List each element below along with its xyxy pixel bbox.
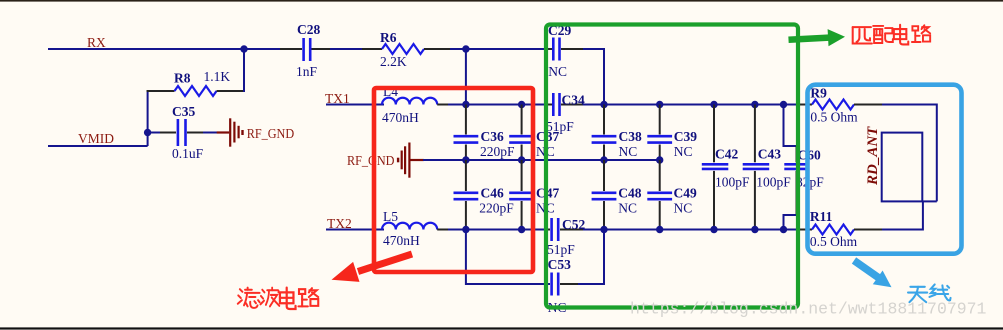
junction TX2/col2: [518, 226, 525, 233]
svg-text:C52: C52: [562, 217, 585, 232]
svg-text:NC: NC: [674, 201, 693, 216]
wire C53 loop right: [578, 230, 604, 285]
junction TX2/col3: [600, 226, 607, 233]
inductor L4: [382, 84, 452, 125]
arrow antenna (cyan): [854, 261, 892, 288]
capacitor C42: [702, 105, 750, 230]
junction TX2/C42: [710, 226, 717, 233]
wire R9 to antenna: [882, 105, 937, 202]
wire vertical col1 RX to TX1: [465, 49, 467, 105]
capacitor C35: [148, 104, 205, 161]
junction mid/col1: [462, 156, 469, 163]
top frame line: [0, 0, 1003, 2]
svg-text:C43: C43: [758, 147, 781, 162]
junction TX1/C42: [710, 101, 717, 108]
capacitor C37: [509, 105, 559, 161]
svg-text:RF_GND: RF_GND: [247, 126, 295, 141]
svg-text:C36: C36: [481, 129, 504, 144]
wire C29 to col3 drop: [583, 49, 604, 105]
antenna U RD_ANT box: [865, 126, 937, 202]
wire R6 to C29: [450, 48, 546, 50]
svg-text:0.5 Ohm: 0.5 Ohm: [810, 110, 858, 125]
junction TX1/col4: [656, 101, 663, 108]
svg-text:C53: C53: [548, 257, 571, 272]
wire RX horizontal: [48, 48, 302, 50]
node VMID label: [78, 131, 114, 146]
wire VMID: [48, 145, 148, 147]
capacitor C36: [454, 105, 516, 161]
svg-text:L5: L5: [383, 209, 398, 224]
svg-text:R6: R6: [380, 30, 397, 45]
svg-text:https://blog.csdn.net/wwt18811: https://blog.csdn.net/wwt18811707971: [630, 300, 987, 319]
box match (green): [546, 25, 798, 308]
bottom frame line: [0, 327, 1003, 329]
svg-text:220pF: 220pF: [480, 144, 515, 159]
node TX2 label: [327, 216, 352, 231]
svg-text:RD_ANT: RD_ANT: [865, 126, 881, 186]
svg-text:C28: C28: [297, 22, 320, 37]
junction TX1/col2: [518, 101, 525, 108]
wire TX2 row L5 to C52: [448, 229, 546, 231]
label match text 匹配电路: [853, 25, 930, 45]
svg-text:82pF: 82pF: [796, 175, 824, 190]
resistor R9: [786, 86, 884, 125]
node RX label: [87, 35, 106, 50]
capacitor C46: [454, 160, 515, 230]
junction TX1/col1: [462, 101, 469, 108]
junction TX2/C43: [751, 226, 758, 233]
svg-text:100pF: 100pF: [715, 175, 750, 190]
arrow match (green): [789, 29, 846, 46]
inductor L5: [382, 209, 452, 248]
junction mid/col2: [518, 156, 525, 163]
capacitor C43: [743, 105, 792, 230]
wire mid RF_GND row: [423, 159, 660, 161]
box antenna (cyan): [808, 85, 962, 254]
junction TX2/col1: [462, 226, 469, 233]
svg-text:R9: R9: [810, 86, 827, 101]
svg-text:NC: NC: [548, 64, 567, 79]
svg-text:C49: C49: [674, 186, 697, 201]
svg-text:R11: R11: [810, 209, 833, 224]
svg-text:1.1K: 1.1K: [204, 69, 231, 84]
junction node RX/R8: [240, 45, 247, 52]
label filter text 滤波电路: [238, 288, 318, 309]
svg-text:C46: C46: [481, 186, 504, 201]
box filter (red): [374, 88, 533, 272]
svg-text:C42: C42: [715, 147, 738, 162]
ground RF_GND (left): [217, 118, 295, 146]
capacitor C49: [647, 160, 697, 230]
wire R11 to antenna: [882, 201, 923, 229]
svg-text:C34: C34: [562, 93, 585, 108]
resistor R8: [147, 49, 244, 146]
junction TX1/col3: [600, 101, 607, 108]
svg-text:C39: C39: [674, 129, 697, 144]
svg-text:NC: NC: [674, 144, 693, 159]
svg-text:C48: C48: [618, 186, 641, 201]
capacitor C29: [546, 23, 585, 79]
capacitor C60: [784, 105, 825, 230]
wire C53 loop left: [466, 230, 550, 285]
capacitor C38: [592, 105, 642, 161]
svg-text:0.5 Ohm: 0.5 Ohm: [810, 234, 858, 249]
wire TX1 lead: [326, 104, 384, 106]
svg-text:C35: C35: [172, 104, 195, 119]
wire TX2 row C52 to right: [583, 229, 812, 231]
svg-text:51pF: 51pF: [547, 242, 575, 257]
arrow filter (red): [332, 254, 413, 282]
svg-text:RX: RX: [87, 35, 106, 50]
resistor R11: [799, 209, 884, 249]
svg-text:0.1uF: 0.1uF: [172, 146, 204, 161]
junction TX2/C60: [780, 226, 787, 233]
svg-text:VMID: VMID: [78, 131, 114, 146]
svg-text:C38: C38: [619, 129, 642, 144]
svg-text:1nF: 1nF: [296, 64, 318, 79]
node TX1 label: [325, 91, 350, 106]
junction TX2/col4: [656, 226, 663, 233]
ground RF_GND (middle): [347, 143, 424, 178]
capacitor C34: [546, 93, 585, 135]
wire TX1 row C34 to right: [583, 104, 790, 106]
junction node VMID/C35: [144, 129, 151, 136]
capacitor C28: [296, 22, 332, 79]
junction mid/col3: [600, 156, 607, 163]
watermark: [630, 300, 987, 319]
svg-text:470nH: 470nH: [382, 110, 419, 125]
capacitor C48: [592, 160, 642, 230]
wire C35 to RF_GND: [203, 132, 218, 134]
resistor R6: [362, 30, 452, 69]
svg-text:2.2K: 2.2K: [380, 54, 407, 69]
svg-text:NC: NC: [619, 144, 638, 159]
junction TX1/C43: [751, 101, 758, 108]
svg-text:RF_GND: RF_GND: [347, 153, 395, 168]
wire C28 to R6: [330, 48, 364, 50]
label antenna text 天线: [908, 284, 951, 302]
junction TX1/C60: [780, 101, 787, 108]
capacitor C53: [548, 257, 580, 315]
svg-text:470nH: 470nH: [383, 233, 420, 248]
svg-text:NC: NC: [618, 201, 637, 216]
junction node RX/col1: [462, 45, 469, 52]
svg-text:R8: R8: [174, 71, 191, 86]
capacitor C39: [647, 105, 697, 161]
wire TX1 row L4 to C34: [448, 104, 546, 106]
capacitor C47: [509, 160, 559, 230]
capacitor C52: [546, 217, 585, 257]
svg-text:100pF: 100pF: [756, 175, 791, 190]
wire TX2 lead: [326, 229, 384, 231]
junction mid/col4: [656, 156, 663, 163]
svg-text:220pF: 220pF: [479, 201, 514, 216]
